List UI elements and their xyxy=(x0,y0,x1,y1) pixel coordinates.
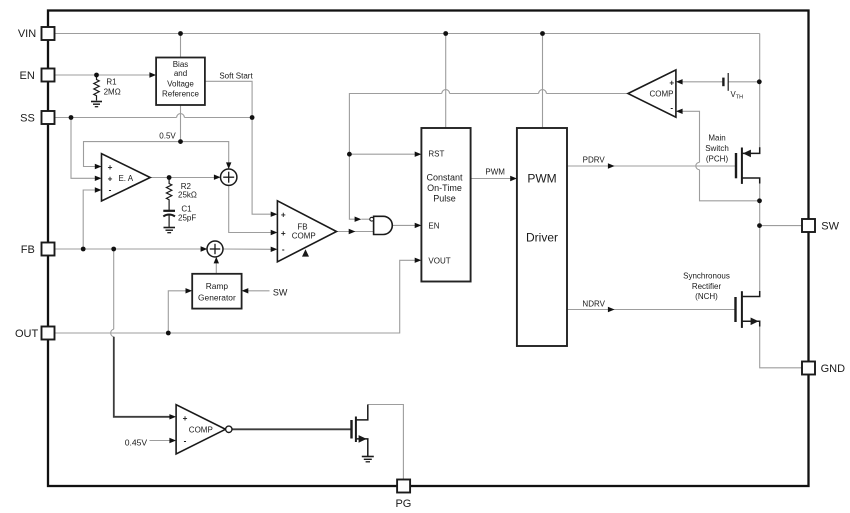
svg-text:Constant: Constant xyxy=(426,173,463,183)
arrow into summing node 1 left xyxy=(214,175,221,180)
wire FB line into summing node 2 xyxy=(55,248,203,250)
pin PG xyxy=(397,480,410,493)
wire EA output to summing node xyxy=(150,177,215,179)
svg-text:0.45V: 0.45V xyxy=(125,438,148,448)
arrow PG comparator minus input xyxy=(169,438,176,443)
arrow EN input xyxy=(415,223,422,228)
arrow ramp generator left input xyxy=(186,288,193,293)
wire AND output to EN xyxy=(392,224,415,226)
arrow EA input 3 xyxy=(95,187,102,192)
comparator COMP current limit xyxy=(628,70,676,117)
Q1 source arrow xyxy=(743,150,751,158)
wire bias box bottom 0.5V reference xyxy=(180,105,182,142)
svg-text:VIN: VIN xyxy=(18,28,36,40)
svg-text:(PCH): (PCH) xyxy=(706,155,729,164)
node FB/PG junction xyxy=(111,247,116,252)
svg-text:On-Time: On-Time xyxy=(427,183,462,193)
wire hop over on-time supply xyxy=(442,90,450,94)
transistor Q3 power good FET xyxy=(352,405,368,457)
node soft start junction xyxy=(250,115,255,120)
pin GND xyxy=(802,362,815,375)
svg-text:2MΩ: 2MΩ xyxy=(104,88,121,97)
AND gate U2 xyxy=(370,216,393,234)
svg-text:SW: SW xyxy=(821,221,839,233)
arrow COMP minus input xyxy=(676,109,683,114)
wire OUT to ramp generator left input xyxy=(168,291,186,333)
wire hop over PDRV xyxy=(696,162,700,169)
svg-text:and: and xyxy=(174,69,187,78)
wire SW node to pin xyxy=(760,225,803,227)
node EN/R1 junction xyxy=(94,73,99,78)
svg-text:PWM: PWM xyxy=(485,168,505,177)
wire summing node 2 output to FB COMP minus input xyxy=(223,248,272,250)
svg-text:-: - xyxy=(670,103,673,112)
svg-text:+: + xyxy=(108,175,113,184)
wire VIN rail horizontal xyxy=(55,33,760,35)
svg-text:Soft Start: Soft Start xyxy=(219,72,253,81)
ramp generator block xyxy=(192,274,241,309)
wire FB sense down to PG comparator plus input xyxy=(114,337,171,417)
wire SW stub into ramp generator xyxy=(247,290,270,292)
svg-text:Bias: Bias xyxy=(173,60,189,69)
node drain sense junction xyxy=(757,198,762,203)
svg-text:EN: EN xyxy=(20,70,35,82)
wire 0.45V stub to PG comparator minus input xyxy=(150,440,171,442)
pin SS xyxy=(42,111,55,124)
wire summing node 1 output down to FB COMP mid input xyxy=(229,185,272,232)
wire PMOS drain to SW node xyxy=(759,183,761,292)
arrow PWM input xyxy=(510,176,517,181)
svg-text:PDRV: PDRV xyxy=(583,156,606,165)
arrow into summing node 2 left xyxy=(201,246,208,251)
arrow COMP plus input xyxy=(676,79,683,84)
arrow NDRV xyxy=(608,307,615,312)
svg-text:COMP: COMP xyxy=(292,232,316,241)
arrow RST input xyxy=(415,152,422,157)
svg-text:+: + xyxy=(281,229,286,238)
arrow AND input 2 xyxy=(349,229,356,234)
wire EN to bias xyxy=(55,74,151,76)
node battery/VIN junction xyxy=(757,79,762,84)
node EA output junction xyxy=(167,175,172,180)
wire comparator output to AND gate xyxy=(349,94,441,220)
bias and voltage reference block U1 xyxy=(156,58,205,106)
comparator FB COMP xyxy=(277,201,336,262)
svg-text:25kΩ: 25kΩ xyxy=(178,191,197,200)
svg-text:PWM: PWM xyxy=(527,171,556,185)
Q2 source arrow xyxy=(751,318,759,326)
arrow into summing node 2 bottom xyxy=(214,257,219,264)
wire PWM signal xyxy=(471,178,511,180)
svg-text:+: + xyxy=(281,211,286,220)
wire current comparator output left segment xyxy=(546,93,628,95)
wire VIN to bias box top xyxy=(180,34,182,58)
resistor R1 xyxy=(94,75,99,101)
wire hop over OUT line xyxy=(111,329,114,337)
node SW junction xyxy=(757,223,762,228)
pin FB xyxy=(42,243,55,256)
arrow PG comparator plus input xyxy=(169,414,176,419)
svg-text:Synchronous: Synchronous xyxy=(683,272,730,281)
wire NMOS source to GND pin xyxy=(760,326,802,368)
comparator COMP power good xyxy=(176,405,225,454)
svg-text:-: - xyxy=(109,185,112,194)
battery VTH xyxy=(723,73,728,91)
op-amp E.A error amplifier xyxy=(102,154,151,201)
svg-text:FB: FB xyxy=(21,244,35,256)
node VIN/driver junction xyxy=(540,31,545,36)
wire PDRV signal xyxy=(567,165,736,167)
arrow FB COMP input 2 xyxy=(271,230,278,235)
wire Soft Start from bias box to SS node xyxy=(205,81,252,117)
constant on-time pulse block xyxy=(421,128,470,282)
node RST branch junction xyxy=(347,152,352,157)
arrow ramp generator right input xyxy=(242,288,249,293)
arrow EA input 2 xyxy=(95,176,102,181)
pin SW xyxy=(802,219,815,232)
svg-text:NDRV: NDRV xyxy=(582,299,605,308)
wire FB up to EA minus input xyxy=(83,190,96,249)
node 0.5V junction xyxy=(178,139,183,144)
wire SS line left xyxy=(55,117,177,119)
svg-text:R1: R1 xyxy=(106,78,117,87)
svg-text:COMP: COMP xyxy=(189,426,213,435)
wire SS line hop over bias 0.5V vertical xyxy=(177,114,185,118)
arrow EA input 1 xyxy=(95,164,102,169)
wire soft start down to FB COMP top input xyxy=(252,118,272,215)
summing node 2 xyxy=(207,241,223,257)
wire comparator output middle segment xyxy=(450,93,539,95)
pin EN xyxy=(42,69,55,82)
svg-text:PG: PG xyxy=(395,498,411,510)
wire PG comparator output to FET gate xyxy=(232,428,352,430)
svg-text:GND: GND xyxy=(821,363,846,375)
svg-text:Ramp: Ramp xyxy=(206,281,229,291)
svg-text:+: + xyxy=(669,78,674,87)
PG comparator output bubble xyxy=(226,426,232,432)
svg-text:VOUT: VOUT xyxy=(428,257,450,266)
svg-text:+: + xyxy=(108,163,113,172)
ground for R1 xyxy=(91,102,102,107)
svg-text:SS: SS xyxy=(20,112,35,124)
svg-text:(NCH): (NCH) xyxy=(695,292,718,301)
transistor Q1 main switch PCH xyxy=(736,147,760,184)
arrow into summing node 1 top xyxy=(226,162,231,169)
wire SS to EA plus input xyxy=(71,118,96,179)
wire PG drain to PG pin xyxy=(368,405,404,480)
node VIN/on-time junction xyxy=(443,31,448,36)
ground for Q3 xyxy=(362,457,374,462)
summing node 1 xyxy=(221,169,237,185)
wire VIN rail right vertical to PMOS source xyxy=(759,34,761,149)
wire 0.5V reference rail xyxy=(84,142,229,167)
svg-text:FB: FB xyxy=(297,223,307,232)
svg-text:Switch: Switch xyxy=(705,144,729,153)
pin OUT xyxy=(42,327,55,340)
wire SS line right xyxy=(184,117,252,119)
svg-text:25pF: 25pF xyxy=(178,213,196,222)
svg-text:Main: Main xyxy=(708,134,725,143)
svg-text:-: - xyxy=(282,245,285,254)
resistor R2 xyxy=(166,178,171,211)
arrow into bias block xyxy=(149,72,156,77)
arrow FB COMP input 3 xyxy=(271,247,278,252)
capacitor C1 xyxy=(163,211,175,227)
wire arrowed stub into AND input1 xyxy=(361,218,370,220)
svg-text:C1: C1 xyxy=(181,205,192,214)
arrow VOUT input xyxy=(415,258,422,263)
ground for C1 xyxy=(164,228,176,233)
svg-text:Pulse: Pulse xyxy=(433,194,456,204)
arrowheads xyxy=(95,72,683,443)
wire comparator minus sense to switch node xyxy=(700,170,760,201)
clock mark under FB COMP xyxy=(302,249,309,256)
wire FB down toward PG comparator xyxy=(113,249,115,329)
arrow AND input 1 xyxy=(355,217,362,222)
wire VIN supply drop to PWM driver xyxy=(542,34,544,129)
wire hop over PWM driver supply xyxy=(539,90,547,94)
wire comparator minus input upper segment xyxy=(682,111,700,162)
wire OUT line xyxy=(55,260,416,333)
svg-text:OUT: OUT xyxy=(15,328,39,340)
node VIN/bias junction xyxy=(178,31,183,36)
svg-text:0.5V: 0.5V xyxy=(159,132,176,141)
svg-text:-: - xyxy=(184,436,187,445)
wire comparator plus input from battery xyxy=(682,81,724,83)
wire battery to VIN rail xyxy=(728,81,759,83)
wire VIN supply drop to on-time block xyxy=(445,34,447,129)
Q3 source arrow xyxy=(359,435,367,443)
svg-text:+: + xyxy=(183,414,188,423)
arrow PDRV xyxy=(608,163,615,168)
svg-text:RST: RST xyxy=(428,150,444,159)
svg-text:Generator: Generator xyxy=(198,292,236,302)
svg-text:Voltage: Voltage xyxy=(167,79,194,88)
svg-text:EN: EN xyxy=(428,222,439,231)
PWM driver block xyxy=(517,128,567,346)
wire NDRV signal xyxy=(567,309,736,311)
arrow FB COMP input 1 xyxy=(271,212,278,217)
wire ramp generator output up to summing node 2 xyxy=(215,262,217,274)
svg-text:Driver: Driver xyxy=(526,231,558,245)
node OUT/ramp junction xyxy=(166,331,171,336)
svg-text:COMP: COMP xyxy=(650,90,674,99)
svg-text:SW: SW xyxy=(273,287,288,297)
svg-text:Reference: Reference xyxy=(162,89,199,98)
transistor Q2 synchronous rectifier NCH xyxy=(736,291,760,328)
svg-text:E. A: E. A xyxy=(118,174,133,183)
wire FB COMP output to AND input2 xyxy=(337,231,374,233)
pin VIN xyxy=(42,27,55,40)
wire comparator branch to RST xyxy=(349,153,415,155)
svg-text:R2: R2 xyxy=(181,182,192,191)
node FB/EA junction xyxy=(81,247,86,252)
svg-text:Rectifier: Rectifier xyxy=(692,282,722,291)
node SS/EA junction xyxy=(69,115,74,120)
